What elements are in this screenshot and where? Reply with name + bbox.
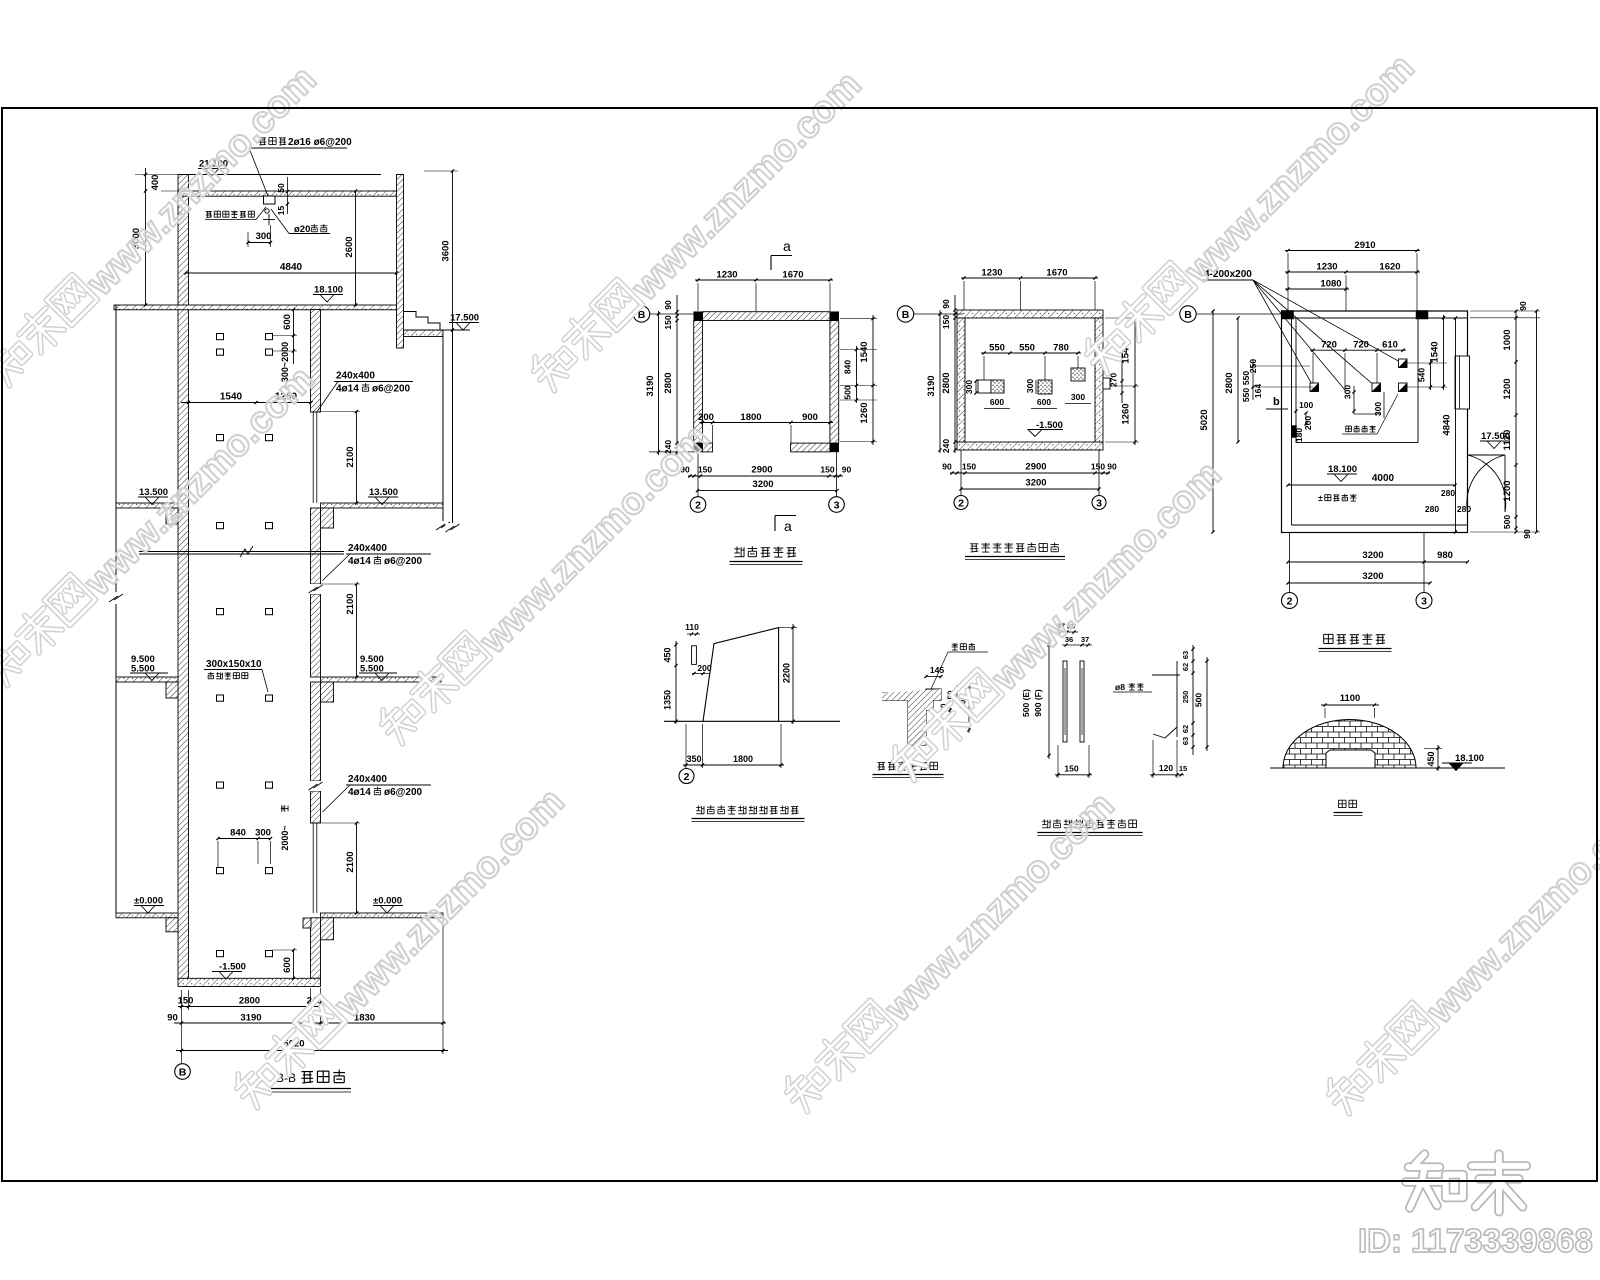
svg-text:120: 120	[1159, 763, 1173, 773]
svg-text:550: 550	[1241, 388, 1251, 402]
svg-text:550: 550	[1019, 343, 1035, 354]
svg-text:150: 150	[1091, 462, 1105, 472]
svg-text:900: 900	[802, 412, 818, 423]
svg-text:780: 780	[1053, 343, 1069, 354]
svg-text:90: 90	[1107, 462, 1117, 472]
svg-text:600: 600	[990, 397, 1004, 407]
svg-text:2800: 2800	[941, 372, 952, 393]
svg-text:2200: 2200	[782, 663, 792, 683]
svg-text:37: 37	[1081, 635, 1089, 644]
svg-text:100: 100	[1299, 400, 1313, 410]
svg-text:ø6@200: ø6@200	[372, 384, 411, 395]
svg-text:2100: 2100	[345, 446, 356, 467]
svg-text:500: 500	[1502, 515, 1512, 529]
svg-text:4ø14: 4ø14	[336, 384, 359, 395]
svg-text:90: 90	[1518, 301, 1528, 311]
svg-text:18.100: 18.100	[314, 285, 343, 296]
svg-text:350: 350	[686, 754, 701, 764]
svg-text:300: 300	[1343, 385, 1353, 399]
svg-text:110: 110	[685, 622, 699, 632]
svg-text:450: 450	[663, 647, 673, 662]
svg-text:2: 2	[1287, 595, 1293, 607]
svg-text:1540: 1540	[220, 392, 243, 403]
svg-text:a: a	[784, 518, 792, 534]
svg-text:610: 610	[1382, 340, 1398, 351]
svg-text:600: 600	[1037, 397, 1051, 407]
svg-text:1800: 1800	[740, 412, 761, 423]
svg-text:1200: 1200	[1502, 480, 1513, 501]
svg-text:2800: 2800	[239, 996, 260, 1007]
svg-text:1200: 1200	[1502, 378, 1513, 399]
svg-text:980: 980	[1437, 550, 1453, 561]
svg-text:90: 90	[1522, 529, 1532, 539]
svg-text:3190: 3190	[240, 1013, 261, 1024]
svg-text:1800: 1800	[733, 754, 753, 764]
svg-text:1260: 1260	[859, 402, 870, 423]
svg-text:300: 300	[1071, 392, 1085, 402]
svg-text:B: B	[179, 1066, 187, 1078]
svg-text:18.100: 18.100	[1328, 464, 1357, 475]
svg-text:280: 280	[1457, 504, 1471, 514]
svg-text:5020: 5020	[1199, 409, 1210, 430]
svg-text:3600: 3600	[441, 240, 452, 261]
svg-text:b: b	[1273, 396, 1280, 408]
svg-text:4ø14: 4ø14	[348, 787, 371, 798]
svg-text:200: 200	[698, 412, 714, 423]
svg-text:1670: 1670	[782, 270, 803, 281]
svg-text:1120: 1120	[1502, 430, 1513, 451]
svg-text:15: 15	[1179, 764, 1187, 773]
svg-text:4840: 4840	[1442, 414, 1453, 435]
svg-text:180: 180	[1294, 428, 1304, 442]
svg-text:62: 62	[1181, 663, 1190, 671]
svg-text:90: 90	[942, 462, 952, 472]
svg-text:±0.000: ±0.000	[134, 896, 163, 907]
svg-text:3: 3	[1421, 595, 1427, 607]
svg-text:150: 150	[1064, 764, 1078, 774]
svg-text:90: 90	[842, 465, 852, 475]
svg-text:540: 540	[1417, 368, 1427, 382]
svg-text:550: 550	[989, 343, 1005, 354]
svg-text:1540: 1540	[1430, 341, 1441, 362]
svg-text:500 (E): 500 (E)	[1021, 689, 1031, 717]
svg-text:240: 240	[941, 439, 951, 453]
svg-text:ø8: ø8	[1115, 682, 1125, 692]
svg-text:2900: 2900	[751, 465, 772, 476]
svg-text:2: 2	[958, 497, 964, 509]
svg-text:ID: 1173339868: ID: 1173339868	[1358, 1222, 1593, 1259]
svg-text:1230: 1230	[981, 268, 1002, 279]
svg-text:90: 90	[663, 300, 673, 310]
svg-text:3200: 3200	[1362, 550, 1383, 561]
svg-text:3: 3	[1096, 497, 1102, 509]
svg-text:1620: 1620	[1379, 262, 1400, 273]
svg-text:280: 280	[1425, 504, 1439, 514]
svg-text:2100: 2100	[345, 593, 356, 614]
svg-text:-1.500: -1.500	[219, 962, 246, 973]
svg-text:63: 63	[1181, 651, 1190, 659]
svg-text:1540: 1540	[859, 341, 870, 362]
svg-text:18.100: 18.100	[1455, 753, 1484, 764]
svg-text:200: 200	[1303, 416, 1313, 430]
svg-text:150: 150	[663, 315, 673, 329]
svg-text:1230: 1230	[1316, 262, 1337, 273]
svg-text:150: 150	[178, 996, 194, 1007]
svg-text:90: 90	[167, 1013, 178, 1024]
svg-text:280: 280	[1441, 488, 1455, 498]
svg-text:1230: 1230	[716, 270, 737, 281]
svg-text:2000~: 2000~	[280, 825, 290, 850]
svg-text:1260: 1260	[1121, 403, 1132, 424]
svg-text:4840: 4840	[280, 262, 303, 273]
svg-text:720: 720	[1321, 340, 1337, 351]
svg-text:1000: 1000	[1502, 329, 1513, 350]
svg-text:240x400: 240x400	[348, 774, 387, 785]
svg-text:62: 62	[1181, 725, 1190, 733]
svg-text:150: 150	[962, 462, 976, 472]
svg-text:17.500: 17.500	[450, 313, 479, 324]
svg-text:500: 500	[1194, 693, 1204, 707]
svg-text:300: 300	[964, 380, 974, 394]
svg-text:240x400: 240x400	[348, 543, 387, 554]
svg-text:150: 150	[941, 315, 951, 329]
svg-text:1670: 1670	[1046, 268, 1067, 279]
svg-text:300: 300	[1373, 402, 1383, 416]
svg-text:450: 450	[1426, 751, 1436, 766]
svg-text:250: 250	[1181, 691, 1190, 704]
svg-text:840: 840	[843, 360, 853, 374]
svg-text:2910: 2910	[1354, 240, 1375, 251]
svg-text:4000: 4000	[1372, 473, 1395, 484]
svg-text:50: 50	[276, 183, 286, 193]
svg-text:B: B	[902, 309, 910, 321]
svg-text:2ø16 ø6@200: 2ø16 ø6@200	[288, 137, 352, 148]
svg-text:2: 2	[695, 499, 701, 511]
svg-text:63: 63	[1181, 737, 1190, 745]
svg-text:145: 145	[930, 665, 944, 675]
svg-text:15: 15	[276, 206, 286, 216]
svg-text:2600: 2600	[344, 236, 355, 257]
svg-text:ø6@200: ø6@200	[384, 556, 423, 567]
svg-text:±0.000: ±0.000	[373, 896, 402, 907]
svg-text:3190: 3190	[645, 375, 656, 396]
svg-text:2100: 2100	[345, 851, 356, 872]
svg-text:1080: 1080	[1320, 279, 1341, 290]
svg-text:300: 300	[1025, 379, 1035, 393]
svg-text:300: 300	[255, 828, 271, 839]
svg-text:200: 200	[697, 663, 711, 673]
svg-text:150: 150	[698, 465, 712, 475]
svg-text:1100: 1100	[1340, 693, 1361, 704]
svg-text:90: 90	[941, 299, 951, 309]
svg-text:600: 600	[282, 957, 293, 973]
svg-text:4ø14: 4ø14	[348, 556, 371, 567]
svg-text:2800: 2800	[663, 372, 674, 393]
svg-text:900 (F): 900 (F)	[1033, 689, 1043, 717]
svg-text:600: 600	[282, 314, 293, 330]
svg-text:720: 720	[1353, 340, 1369, 351]
svg-text:300x150x10: 300x150x10	[206, 659, 262, 670]
svg-text:240x400: 240x400	[336, 371, 375, 382]
svg-text:ø6@200: ø6@200	[384, 787, 423, 798]
svg-text:2800: 2800	[1224, 372, 1235, 393]
svg-text:840: 840	[230, 828, 246, 839]
svg-text:1350: 1350	[663, 690, 673, 710]
svg-text:3190: 3190	[926, 375, 937, 396]
svg-text:300: 300	[256, 231, 272, 242]
svg-text:500: 500	[843, 385, 853, 399]
svg-text:150: 150	[820, 465, 834, 475]
svg-text:3200: 3200	[1362, 571, 1383, 582]
svg-text:2900: 2900	[1025, 462, 1046, 473]
svg-text:±: ±	[1318, 493, 1323, 503]
svg-text:3: 3	[834, 499, 840, 511]
svg-text:13.500: 13.500	[369, 487, 398, 498]
svg-text:2: 2	[684, 771, 690, 783]
svg-text:a: a	[783, 238, 791, 254]
svg-text:400: 400	[150, 175, 161, 191]
svg-text:3200: 3200	[752, 479, 773, 490]
svg-text:B: B	[1184, 309, 1192, 321]
svg-text:3200: 3200	[1025, 478, 1046, 489]
